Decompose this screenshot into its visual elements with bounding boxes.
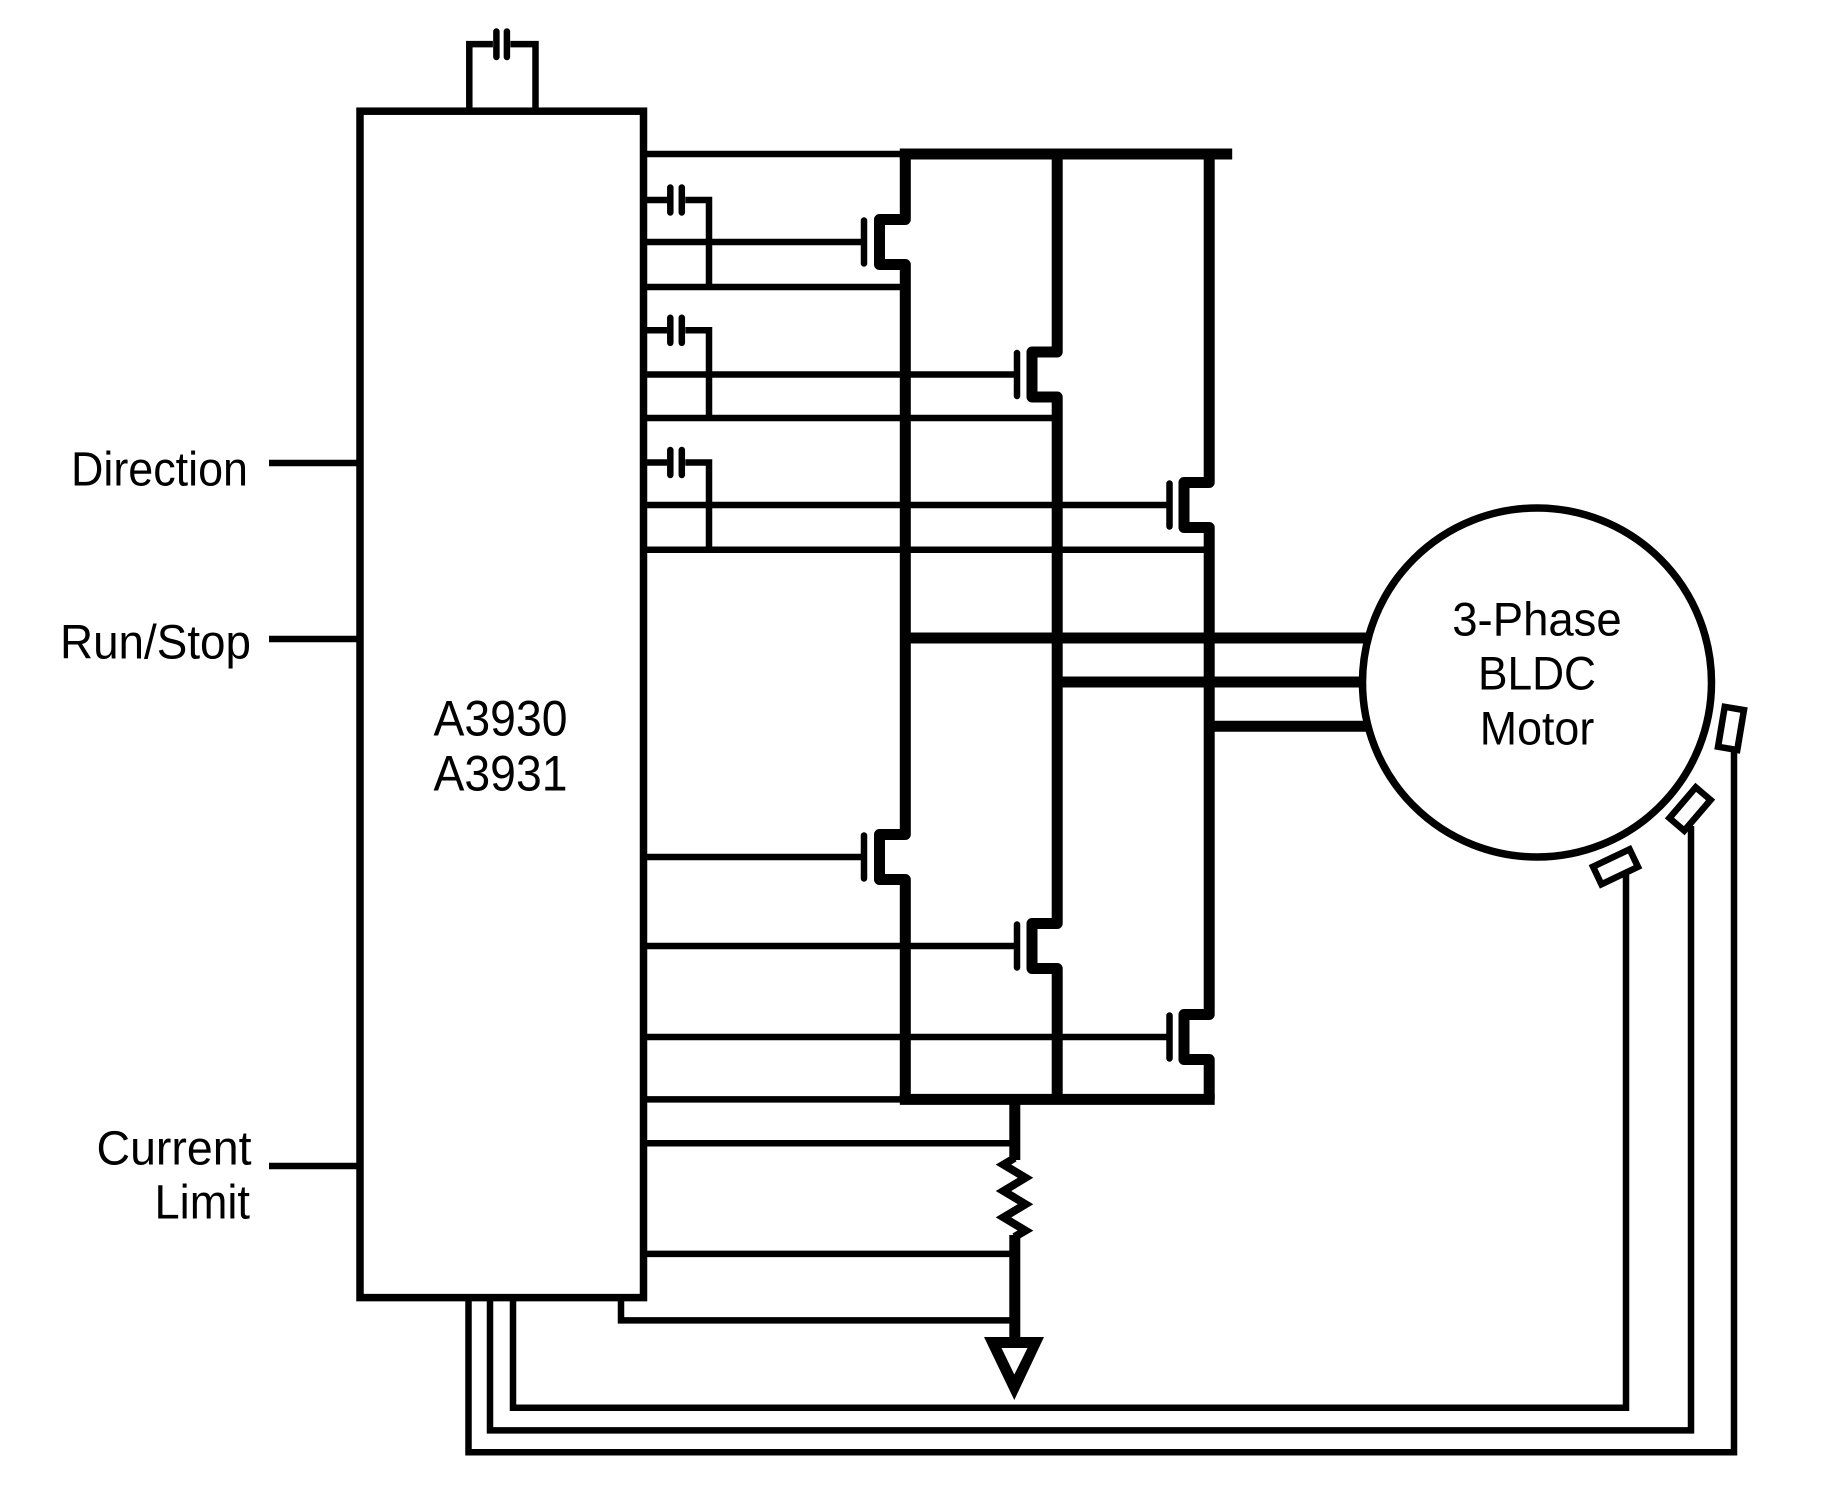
wire phase B sense (SB) bbox=[644, 415, 1057, 422]
wire LSS to sense bus bbox=[644, 1096, 905, 1103]
IC U1 A3930/A3931 block bbox=[360, 111, 644, 1297]
hall sensor H1 bbox=[1718, 707, 1744, 750]
wire hall 1 feedback (inner) bbox=[513, 872, 1626, 1408]
wire AGND from block bottom to star ground bbox=[621, 1296, 1015, 1320]
capacitor C1 charge pump (top) bbox=[469, 32, 535, 114]
capacitor C3 bootstrap B bbox=[644, 318, 709, 418]
wire phase C to motor (thick) bbox=[1209, 721, 1380, 732]
hall sensor H3 bbox=[1593, 849, 1638, 884]
svg-text:Run/Stop: Run/Stop bbox=[60, 617, 251, 670]
wire hall 2 feedback (middle) bbox=[490, 826, 1691, 1430]
wire CSN sense- bbox=[644, 1251, 1015, 1258]
resistor R1 bottom lead bbox=[1009, 1235, 1020, 1347]
wire gate Q3 bbox=[644, 502, 1170, 509]
wire VBB pin to top rail bbox=[644, 151, 905, 158]
hall sensor H2 bbox=[1669, 787, 1710, 830]
transistor Q2 high-side B with rail jog bbox=[1032, 154, 1057, 1099]
svg-text:BLDC: BLDC bbox=[1478, 647, 1596, 700]
wire gate Q4 bbox=[644, 854, 864, 861]
resistor R1 sense top lead bbox=[1009, 1099, 1020, 1160]
label Current Limit bbox=[97, 1123, 252, 1230]
wire phase C sense (SC) bbox=[644, 547, 1209, 554]
transistor Q3 high-side C with rail jog bbox=[1184, 154, 1209, 1099]
wire hall 3 feedback (outer) bbox=[469, 745, 1735, 1452]
wire top supply rail (thick) bbox=[900, 149, 1232, 160]
wire Direction input bbox=[269, 460, 361, 467]
wire gate Q2 bbox=[644, 371, 1017, 378]
gate bar Q1 bbox=[861, 221, 868, 264]
wire low-side source bus (thick) bbox=[900, 1094, 1215, 1105]
resistor R1 zigzag body bbox=[1004, 1158, 1026, 1237]
wire phase A sense (SA) bbox=[644, 284, 905, 291]
gate bar Q2 bbox=[1014, 353, 1021, 396]
gate bar Q3 bbox=[1166, 484, 1173, 527]
wire Current Limit input bbox=[269, 1163, 361, 1170]
capacitor C2 bootstrap A bbox=[644, 188, 709, 288]
wire gate Q5 bbox=[644, 943, 1017, 950]
svg-text:A3931: A3931 bbox=[434, 746, 568, 802]
svg-text:Current: Current bbox=[97, 1123, 252, 1176]
wire gate Q6 bbox=[644, 1034, 1170, 1041]
wire phase B to motor (thick) bbox=[1057, 677, 1380, 688]
gate bar Q4 bbox=[861, 836, 868, 879]
wire Run/Stop input bbox=[269, 636, 361, 643]
ground arrow bbox=[984, 1337, 1044, 1400]
gate bar Q6 bbox=[1166, 1016, 1173, 1059]
gate bar Q5 bbox=[1014, 925, 1021, 968]
svg-text:Limit: Limit bbox=[155, 1177, 251, 1230]
wire CSP sense+ bbox=[644, 1140, 1015, 1147]
svg-text:3-Phase: 3-Phase bbox=[1452, 593, 1622, 646]
transistor Q1 high-side A with rail jog bbox=[880, 154, 906, 1099]
svg-text:A3930: A3930 bbox=[434, 691, 568, 747]
capacitor C4 bootstrap C bbox=[644, 450, 709, 550]
svg-text:Direction: Direction bbox=[71, 444, 248, 497]
motor M1 3-Phase BLDC bbox=[1363, 508, 1712, 857]
svg-text:Motor: Motor bbox=[1480, 702, 1595, 755]
wire phase A to motor (thick) bbox=[905, 633, 1380, 644]
wire gate Q1 bbox=[644, 239, 864, 246]
